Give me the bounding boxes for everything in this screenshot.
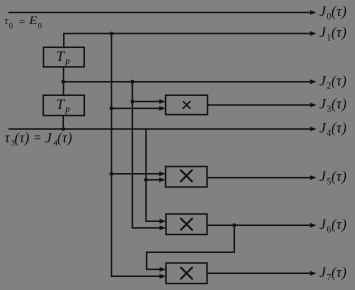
junction dot J1/bus <box>110 32 114 36</box>
svg-text:J1(τ): J1(τ) <box>319 25 346 42</box>
multiply sign M3 <box>183 102 190 109</box>
wire J7 output <box>207 272 311 274</box>
wire vertical bus from J1 down to J7 lower input <box>112 34 161 277</box>
junction dot M5 upper tap <box>110 172 114 176</box>
svg-text:J6(τ): J6(τ) <box>319 217 346 234</box>
multiplier M6 <box>166 214 207 235</box>
wire J0 <box>9 12 311 14</box>
delay block T2 <box>43 95 84 115</box>
wire vertical bus from J4 down to J6 upper input <box>146 129 161 221</box>
svg-text:τ3(τ)=J4(τ): τ3(τ)=J4(τ) <box>5 130 73 147</box>
arrowhead M7 upper input <box>160 267 167 272</box>
arrowhead J6 <box>310 223 317 228</box>
junction dot J6 feedback tap <box>232 223 236 227</box>
svg-text:J2(τ): J2(τ) <box>319 73 346 90</box>
wire J6 output <box>207 224 311 226</box>
wire J1 <box>64 34 311 48</box>
junction dot J2/bus <box>131 80 135 84</box>
junction dot M3 upper tap <box>131 100 135 104</box>
arrowhead J4 <box>310 127 317 132</box>
wire J5 output <box>207 177 311 179</box>
arrowhead M5 upper input <box>159 171 166 176</box>
wire multiplier M5 upper input <box>112 173 161 175</box>
multiplier M7 <box>166 263 207 284</box>
arrowhead M5 lower input <box>159 177 166 182</box>
junction dot J4/T-chain <box>61 127 65 131</box>
wire multiplier M3 upper input <box>132 101 160 103</box>
svg-text:J7(τ): J7(τ) <box>319 265 346 282</box>
svg-text:J3(τ): J3(τ) <box>319 97 346 114</box>
wire multiplier M5 lower input <box>146 179 160 181</box>
wire box2 bottom to J4 line <box>62 116 64 130</box>
wire vertical bus from J2 down to J6 lower input <box>132 82 160 228</box>
svg-text:Tp: Tp <box>56 49 70 66</box>
svg-text:J5(τ): J5(τ) <box>319 169 346 186</box>
wire T_p chain: box1 bottom to box2 top <box>63 67 65 95</box>
arrowhead J7 <box>310 271 317 276</box>
svg-text:J4(τ): J4(τ) <box>319 121 346 138</box>
junction dot J2 left <box>61 80 65 84</box>
arrowhead J2 <box>310 79 317 84</box>
arrowhead J5 <box>310 175 317 180</box>
delay block T1 <box>44 47 85 67</box>
multiply sign M5 <box>181 170 192 181</box>
arrowhead J0 <box>310 10 317 15</box>
multiplier M3 <box>166 95 208 114</box>
svg-text:Tp: Tp <box>56 97 70 114</box>
multiply sign M6 <box>181 219 192 230</box>
arrowhead J3 <box>310 103 317 108</box>
multiplier M5 <box>166 167 207 188</box>
wire feedback from J6 output to J7 upper input <box>147 225 235 269</box>
wire J4 <box>9 128 311 130</box>
arrowhead M6 lower input <box>160 226 167 231</box>
multiply sign M7 <box>181 268 192 279</box>
junction dot M3 lower tap <box>110 107 114 111</box>
svg-text:J0(τ): J0(τ) <box>319 4 346 21</box>
arrowhead M3 upper input <box>159 99 166 104</box>
arrowhead M3 lower input <box>159 106 166 111</box>
arrowhead J1 <box>310 31 317 36</box>
arrowhead M6 upper input <box>160 219 167 224</box>
junction dot M5 lower tap <box>144 178 148 182</box>
wire J3 output <box>208 104 311 106</box>
svg-text:τ0=E0: τ0=E0 <box>4 15 42 30</box>
wire multiplier M3 lower input <box>112 107 161 109</box>
arrowhead M7 lower input <box>160 274 167 279</box>
wire J2 <box>63 81 310 83</box>
